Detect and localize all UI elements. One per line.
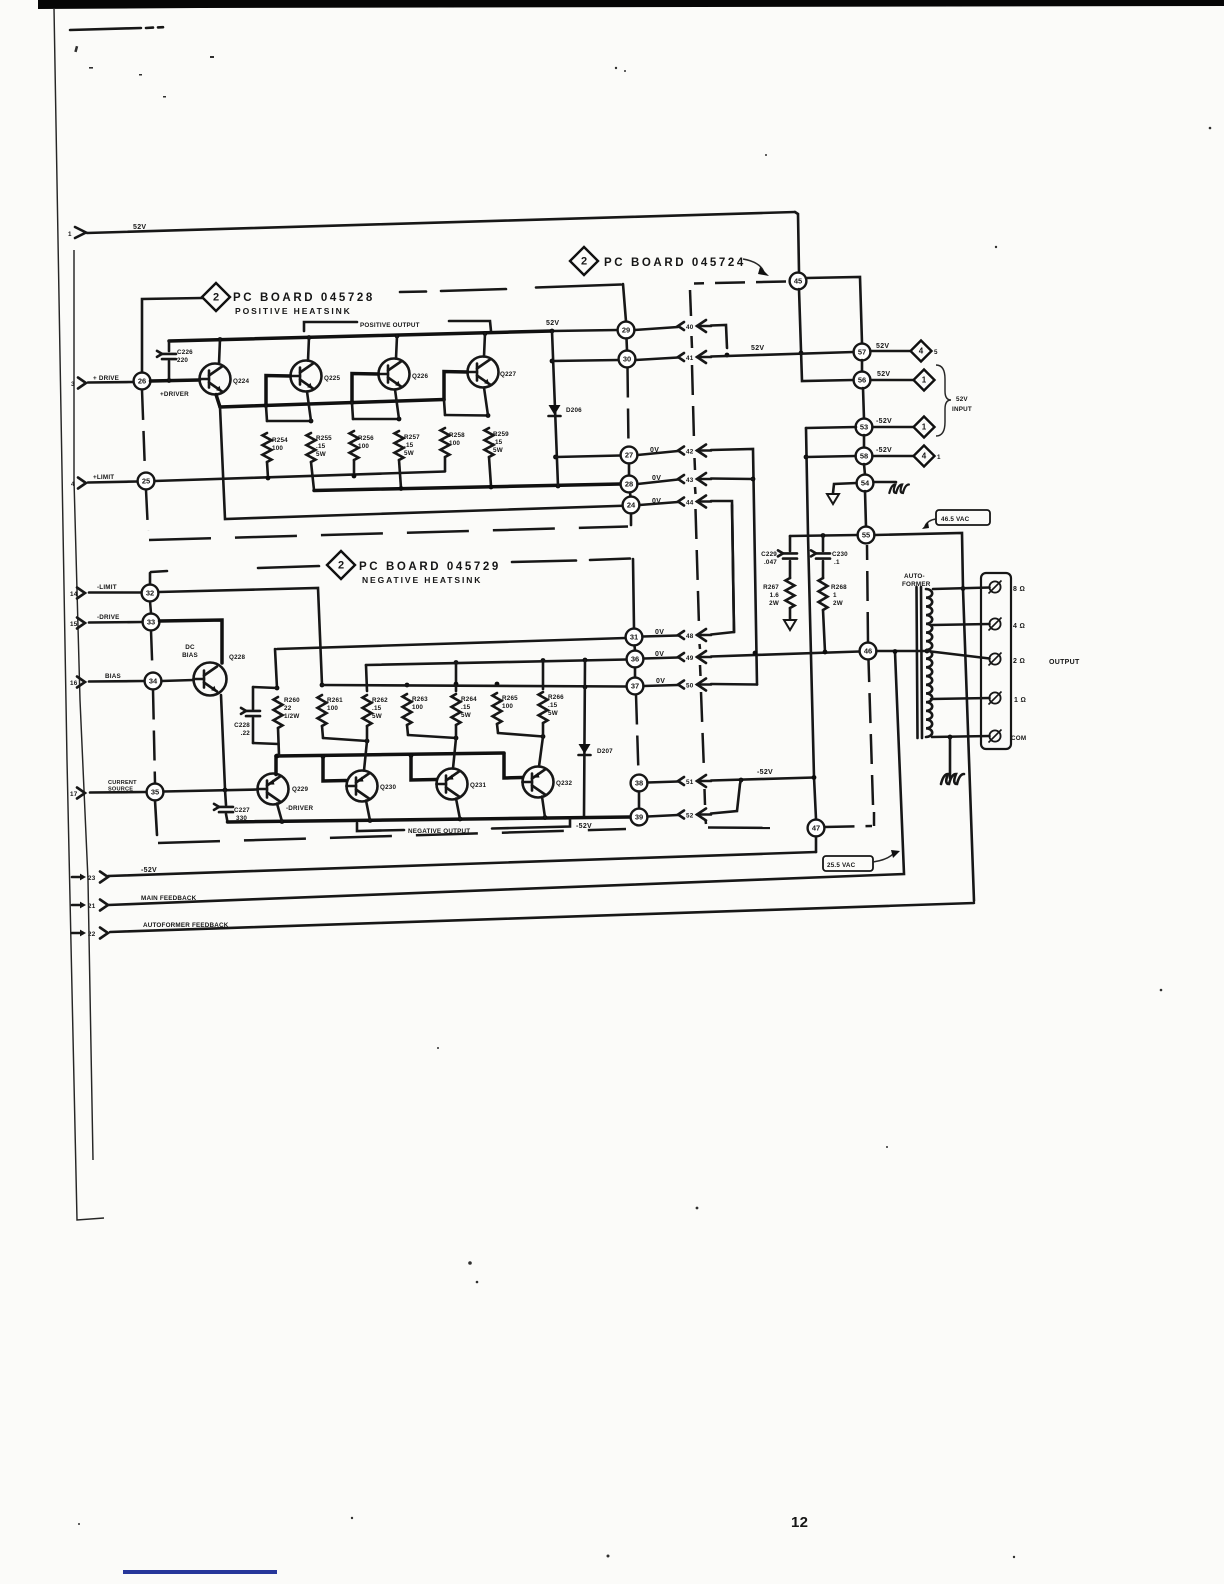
wire emitter Q226: [395, 390, 399, 420]
resistor R262: [363, 695, 372, 726]
svg-text:1 Ω: 1 Ω: [1014, 697, 1026, 704]
junction bridge R266: [541, 734, 546, 739]
wire output line to node28: [314, 484, 621, 491]
svg-text:R262: R262: [372, 697, 388, 704]
svg-text:COM: COM: [1011, 735, 1026, 742]
svg-text:C226: C226: [177, 349, 193, 356]
junction C226: [167, 378, 172, 383]
junction 49 R268: [823, 650, 828, 655]
wire -52V rail: [228, 817, 631, 822]
resistor R264: [452, 694, 461, 725]
resistor R255: [307, 433, 316, 462]
wire D207 vertical: [584, 660, 585, 816]
transistor Q226: [379, 359, 410, 390]
svg-text:PC BOARD 045724: PC BOARD 045724: [604, 257, 746, 269]
ground open triangle R267: [784, 620, 796, 630]
wire corner to node29: [623, 284, 626, 322]
wire collector Q230: [366, 801, 370, 821]
transistor Q231: [437, 769, 468, 800]
svg-text:50: 50: [686, 682, 694, 689]
wire Q224 emitter to bus: [216, 395, 220, 408]
edge below 24: [630, 514, 633, 526]
25.5 VAC box: [823, 856, 873, 871]
wire base Q224: [151, 380, 200, 381]
node 56: [854, 372, 871, 389]
bridge R265-R266: [498, 733, 543, 737]
wire 51 to -52V riser: [711, 778, 814, 781]
resistor R258: [444, 400, 445, 415]
wire L-down base Q231: [411, 756, 436, 781]
svg-text:.15: .15: [461, 704, 471, 711]
wire collector Q227: [484, 333, 485, 357]
resistor R265: [493, 693, 502, 724]
svg-text:57: 57: [858, 348, 866, 357]
negative output bracket: [357, 823, 404, 831]
wire 57-56: [861, 360, 864, 372]
svg-text:37: 37: [631, 682, 639, 691]
svg-text:-52V: -52V: [576, 823, 592, 830]
wire node24 to arrow 44: [640, 502, 679, 505]
wire R266 to Q232: [539, 737, 543, 767]
svg-text:R267: R267: [763, 584, 779, 591]
resistor R254: [266, 406, 267, 421]
wire node35 right: [164, 790, 258, 792]
svg-text:NEGATIVE HEATSINK: NEGATIVE HEATSINK: [362, 575, 482, 585]
wire 50 corner: [711, 683, 757, 686]
wire 58 right: [873, 455, 914, 458]
wire 46 to coil: [877, 650, 928, 653]
node 54: [857, 475, 874, 492]
node 38: [631, 775, 648, 792]
arrow 51: [678, 777, 684, 785]
wire node37 to arrow 50: [644, 685, 679, 686]
svg-text:33: 33: [147, 618, 155, 627]
junction 49 x755: [753, 651, 758, 656]
svg-text:-DRIVE: -DRIVE: [97, 614, 120, 621]
dashed border 045724 right: [869, 660, 874, 805]
junction limit R254: [266, 476, 271, 481]
node 57: [854, 344, 871, 361]
svg-text:.047: .047: [764, 559, 777, 566]
dashed border 045728 bottom: [149, 527, 628, 541]
wire node30 left: [552, 360, 619, 361]
positive output bracket: [304, 322, 357, 331]
node 46: [860, 643, 877, 660]
svg-text:3: 3: [71, 381, 75, 388]
terminal 8ohm: [989, 581, 1000, 592]
svg-text:BIAS: BIAS: [182, 652, 198, 659]
wire 44 corner down: [711, 501, 734, 632]
dashed border 045728 left: [142, 390, 145, 472]
wire L-up base Q225: [266, 376, 290, 406]
junction rail Q229: [280, 819, 285, 824]
resistor R256: [352, 403, 353, 419]
junction rail Q225: [307, 335, 312, 340]
svg-text:.15: .15: [548, 702, 558, 709]
page left border line: [54, 8, 104, 1220]
junction limit R256: [352, 474, 357, 479]
junction bridge R257: [397, 417, 402, 422]
transistor Q228: [194, 663, 227, 696]
svg-text:C227: C227: [234, 807, 250, 814]
svg-text:5W: 5W: [316, 451, 326, 458]
svg-text:Q227: Q227: [500, 371, 517, 378]
25.5 VAC arrow: [873, 854, 893, 862]
dashed edge 37-38: [636, 695, 639, 775]
bridge R261-R262: [323, 738, 367, 741]
wire 55 left: [790, 535, 858, 536]
svg-text:2 Ω: 2 Ω: [1013, 658, 1025, 665]
wire main feedback: [108, 652, 904, 905]
title dashes 045728: [400, 290, 426, 293]
wire node32 right: [159, 588, 323, 685]
wire 52V top: [87, 212, 795, 233]
wire node45 down to 52V junction and node 56: [799, 289, 853, 381]
arrow 52: [678, 811, 684, 819]
svg-text:.15: .15: [493, 439, 503, 446]
svg-text:.15: .15: [316, 443, 326, 450]
svg-text:46: 46: [864, 647, 872, 656]
wire 54 left to ground: [833, 483, 857, 493]
resistor R257: [395, 431, 404, 460]
junction bridge R264: [454, 736, 459, 741]
svg-text:51: 51: [686, 779, 694, 786]
svg-text:R254: R254: [272, 437, 288, 444]
node 31: [626, 629, 643, 646]
svg-text:D206: D206: [566, 407, 582, 414]
svg-text:AUTO-: AUTO-: [904, 573, 925, 580]
wire 57 right: [871, 350, 912, 353]
top-left short line: [70, 28, 141, 30]
svg-text:27: 27: [625, 451, 633, 460]
svg-text:49: 49: [686, 655, 694, 662]
edge 29-30: [625, 339, 628, 351]
svg-text:40: 40: [686, 324, 694, 331]
terminal 4ohm: [989, 618, 1000, 629]
svg-text:28: 28: [625, 480, 633, 489]
node 47: [808, 820, 825, 837]
wire 37 line: [322, 685, 627, 687]
svg-text:D207: D207: [597, 748, 613, 755]
junction R263 top: [405, 683, 410, 688]
diamond 1 (52V in B): [914, 370, 935, 391]
tap 1ohm: [931, 698, 990, 699]
node 35: [147, 784, 164, 801]
wire 58 left: [806, 456, 856, 457]
svg-text:52V: 52V: [956, 396, 968, 403]
wire 42 corner down: [711, 449, 757, 685]
wire 56-53: [863, 388, 864, 419]
earth symbol node54: [889, 485, 909, 494]
svg-text:23: 23: [88, 875, 96, 882]
arrow 40: [678, 322, 684, 330]
junction 36 D207: [583, 658, 588, 663]
wire 56 right: [871, 379, 914, 382]
svg-text:100: 100: [449, 440, 460, 447]
capacitor C226: [168, 361, 171, 380]
junction mainfb: [893, 649, 898, 654]
junction R261 top: [320, 683, 325, 688]
wire 41 to node57: [711, 352, 854, 357]
svg-text:BIAS: BIAS: [105, 673, 121, 680]
junction output R257: [399, 486, 404, 491]
cable bundle line left: [74, 250, 93, 1160]
wire to node32: [89, 591, 142, 594]
wire node33 right corner: [160, 620, 223, 663]
dashed border 045724 top: [694, 282, 786, 284]
junction R265 top: [495, 682, 500, 687]
diamond 1 (-52V in A): [914, 417, 935, 438]
wire neg base bus: [276, 753, 504, 756]
title dashes 045729: [512, 561, 576, 563]
svg-text:POSITIVE OUTPUT: POSITIVE OUTPUT: [360, 322, 420, 329]
tap 4ohm: [932, 624, 990, 625]
svg-text:1: 1: [833, 592, 837, 599]
svg-text:Q232: Q232: [556, 780, 573, 787]
svg-text:DC: DC: [185, 644, 195, 651]
arrow 43: [678, 475, 684, 483]
junction D206 node27: [553, 455, 558, 460]
node 37: [627, 678, 644, 695]
svg-text:52V: 52V: [133, 224, 146, 231]
node 29: [618, 322, 635, 339]
wire node27 to arrow 42: [638, 451, 679, 455]
wire L-down base Q230: [323, 757, 346, 782]
edge 28-24: [629, 493, 632, 497]
wire 58-54: [864, 464, 865, 475]
svg-text:4: 4: [71, 481, 75, 488]
wire node27 left: [556, 456, 621, 458]
junction COM ground: [948, 735, 953, 740]
svg-text:2W: 2W: [769, 600, 779, 607]
svg-text:1/2W: 1/2W: [284, 713, 300, 720]
callout wire 045729: [151, 571, 167, 572]
node 53: [856, 419, 873, 436]
wire 53-58: [863, 435, 866, 448]
svg-text:41: 41: [686, 355, 694, 362]
junction rail Q227: [483, 331, 488, 336]
svg-text:14: 14: [70, 591, 78, 598]
junction R260 top: [275, 686, 280, 691]
svg-text:4 Ω: 4 Ω: [1013, 623, 1025, 630]
svg-text:22: 22: [284, 705, 292, 712]
junction bridge R262: [365, 739, 370, 744]
svg-text:38: 38: [635, 779, 643, 788]
svg-text:35: 35: [151, 788, 159, 797]
tap 2ohm: [927, 651, 990, 659]
junction 40-41: [725, 353, 730, 358]
wire COM ground: [949, 737, 952, 778]
edge 31-36: [633, 646, 636, 651]
wire to node33: [89, 621, 143, 624]
wire Q229 emitter up: [274, 756, 278, 775]
svg-text:-52V: -52V: [757, 769, 773, 776]
svg-text:PC BOARD 045728: PC BOARD 045728: [233, 292, 375, 304]
speckles bottom: [78, 989, 1162, 1559]
node 34: [145, 673, 162, 690]
wire node28 to arrow 43: [638, 480, 679, 485]
arrow 41: [678, 353, 684, 361]
wire collector Q232: [542, 797, 545, 818]
svg-text:PC BOARD 045729: PC BOARD 045729: [359, 561, 501, 573]
junction R264 top: [454, 660, 459, 665]
svg-text:47: 47: [812, 824, 820, 833]
svg-text:-DRIVER: -DRIVER: [286, 805, 314, 812]
wire to node34: [89, 680, 145, 683]
callout arrow to node 45: [743, 259, 764, 272]
svg-text:46.5 VAC: 46.5 VAC: [941, 516, 970, 523]
brace 52V INPUT: [936, 365, 951, 436]
edge 36-37: [634, 668, 637, 678]
edge 35 down: [155, 801, 157, 836]
svg-text:2: 2: [213, 292, 219, 304]
svg-text:Q231: Q231: [470, 782, 487, 789]
wire callout down to node32: [149, 573, 152, 585]
svg-text:32: 32: [146, 589, 154, 598]
diode D207: [579, 744, 591, 754]
dashed border 045729 left: [150, 601, 151, 613]
svg-text:2: 2: [338, 560, 344, 572]
dashed border 045724 corner: [873, 812, 876, 826]
46.5 VAC arrow: [925, 519, 936, 526]
wire 31 line right: [277, 638, 626, 649]
dashed border 045724 bottom left: [708, 826, 788, 829]
node 27: [621, 447, 638, 464]
ground open triangle node54: [827, 494, 839, 504]
svg-text:OUTPUT: OUTPUT: [1049, 659, 1080, 666]
tap COM: [932, 736, 990, 737]
svg-text:Q226: Q226: [412, 373, 429, 380]
wire R262 to Q230: [364, 741, 367, 771]
wire node24 riser: [220, 407, 631, 519]
wire collector Q231: [456, 799, 460, 820]
svg-text:25: 25: [142, 477, 150, 486]
wire 36 corner R262: [366, 665, 367, 691]
svg-text:R256: R256: [358, 435, 374, 442]
svg-text:C230: C230: [832, 551, 848, 558]
svg-text:16: 16: [70, 680, 78, 687]
junction Q228 emitter: [223, 788, 228, 793]
junction bus x323: [321, 754, 326, 759]
wire node36 to arrow 49: [644, 658, 679, 659]
node 55: [858, 527, 875, 544]
svg-text:26: 26: [138, 377, 146, 386]
junction bus R260: [275, 754, 280, 759]
bottom blue mark: [123, 1570, 277, 1574]
callout wire 045728: [142, 298, 202, 372]
wire R264 riser: [455, 663, 458, 692]
node 33: [143, 614, 160, 631]
resistor R266: [539, 692, 548, 723]
bridge R256-R257: [353, 418, 399, 421]
svg-text:R261: R261: [327, 697, 343, 704]
dashed border 045724 left: [690, 290, 691, 316]
wire node55 right to autoformer top: [875, 533, 964, 589]
svg-text:-52V: -52V: [141, 867, 157, 874]
svg-text:NEGATIVE OUTPUT: NEGATIVE OUTPUT: [408, 828, 470, 835]
svg-text:36: 36: [631, 655, 639, 664]
svg-text:1.6: 1.6: [770, 592, 780, 599]
svg-text:R268: R268: [831, 584, 847, 591]
svg-text:52V: 52V: [876, 343, 889, 350]
junction coil 46: [925, 649, 930, 654]
junction bus x411: [409, 753, 414, 758]
svg-text:53: 53: [860, 423, 868, 432]
wire D206 vertical: [552, 331, 558, 486]
wire emitter Q225: [307, 392, 311, 422]
wire 49 to autoformer: [711, 652, 860, 657]
wire 53 right: [873, 426, 914, 429]
svg-text:8 Ω: 8 Ω: [1013, 586, 1025, 593]
dashed border 045724 bottom right: [825, 826, 873, 827]
svg-text:1: 1: [937, 454, 941, 461]
svg-text:Q229: Q229: [292, 786, 309, 793]
svg-text:39: 39: [635, 813, 643, 822]
wire autoformer feedback: [110, 903, 974, 932]
wire L-down base Q232: [504, 754, 522, 779]
svg-text:R260: R260: [284, 697, 300, 704]
dashed edge 30-27: [628, 368, 629, 447]
svg-text:42: 42: [686, 448, 694, 455]
junction rail 52V: [550, 329, 555, 334]
wire 54-55: [865, 491, 866, 527]
terminal 2ohm: [989, 653, 1000, 664]
junction R264 37line: [454, 682, 459, 687]
wire node30 to arrow 41: [636, 358, 679, 361]
junction output R259: [489, 485, 494, 490]
arrow 42: [678, 447, 684, 455]
transistor Q229: [258, 774, 289, 805]
wire node29 to arrow 40: [635, 327, 679, 330]
terminal COM: [989, 730, 1000, 741]
tap 8ohm: [933, 588, 990, 590]
svg-text:25.5 VAC: 25.5 VAC: [827, 862, 856, 869]
wire collector Q226: [396, 336, 397, 359]
junction bus x266: [264, 403, 269, 408]
svg-text:52V: 52V: [546, 320, 559, 327]
wire 43 to vertical: [711, 477, 753, 480]
transistor Q232: [523, 767, 554, 798]
svg-text:Q224: Q224: [233, 378, 250, 385]
svg-text:.1: .1: [834, 559, 840, 566]
resistor R260: [274, 697, 283, 728]
resistor R259: [485, 428, 494, 457]
wire 36 line: [366, 660, 627, 666]
wire 31 line: [275, 649, 277, 688]
svg-text:+DRIVER: +DRIVER: [160, 391, 189, 398]
svg-text:5W: 5W: [461, 712, 471, 719]
svg-text:48: 48: [686, 633, 694, 640]
wire L-up base Q227: [444, 372, 467, 401]
wire node39 to arrow 52: [648, 815, 679, 817]
svg-text:C228: C228: [234, 722, 250, 729]
svg-text:43: 43: [686, 477, 694, 484]
svg-text:-52V: -52V: [876, 418, 892, 425]
node 24: [623, 497, 640, 514]
junction autoformer top tap: [961, 586, 966, 591]
bridge R263-R264: [408, 735, 456, 738]
svg-text:R255: R255: [316, 435, 332, 442]
svg-text:55: 55: [862, 531, 870, 540]
wire node34 to Q228 base: [162, 680, 194, 681]
dashed border 045729 bottom: [158, 829, 626, 843]
junction rail Q230: [368, 818, 373, 823]
svg-text:31: 31: [630, 633, 638, 642]
arrow 49: [678, 653, 684, 661]
svg-text:100: 100: [412, 704, 423, 711]
wire collector Q229: [277, 804, 282, 822]
wire base bus: [220, 400, 444, 408]
